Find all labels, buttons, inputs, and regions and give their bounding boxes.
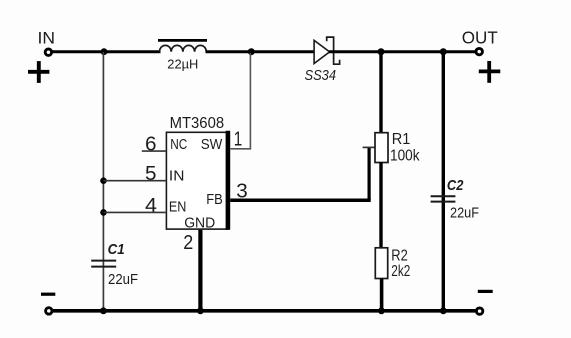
label R1 bbox=[392, 131, 411, 148]
label R2 bbox=[391, 248, 408, 265]
wire C2 branch (vertical through C2) bbox=[442, 53, 445, 310]
node junction at R1 branch bbox=[378, 48, 385, 55]
pin number 4 bbox=[145, 195, 157, 217]
node junction bottom / left rail bbox=[100, 307, 107, 314]
pin label NC bbox=[170, 136, 187, 153]
value label 22uF (C2) bbox=[450, 206, 479, 222]
svg-text:IN: IN bbox=[169, 168, 185, 185]
svg-text:22uF: 22uF bbox=[108, 272, 138, 288]
pin number 3 bbox=[236, 181, 248, 203]
minus sign left bbox=[41, 293, 55, 296]
minus sign right bbox=[478, 290, 493, 293]
label OUT bbox=[462, 27, 498, 47]
pin number 2 bbox=[183, 232, 193, 254]
FB net tick to R1 bbox=[363, 146, 376, 148]
svg-text:FB: FB bbox=[206, 191, 223, 208]
pin label SW bbox=[201, 136, 223, 153]
node junction bottom / GND pin bbox=[197, 307, 204, 314]
terminal IN (open circle) bbox=[45, 49, 51, 55]
node junction bottom / R2 bbox=[378, 307, 385, 314]
pin 4 stub wire bbox=[104, 211, 167, 213]
svg-text:2: 2 bbox=[183, 232, 193, 254]
terminal minus left (open circle) bbox=[46, 308, 52, 314]
pin number 1 bbox=[234, 129, 243, 151]
inductor L1 coil 22µH bbox=[160, 45, 207, 51]
resistor R2 bbox=[375, 248, 387, 279]
node junction at SW riser bbox=[248, 48, 255, 55]
svg-text:22µH: 22µH bbox=[167, 56, 198, 71]
pin 6 stub wire bbox=[142, 150, 167, 152]
pin number 5 bbox=[145, 163, 157, 185]
wire top rail segment 1 (IN terminal to inductor) bbox=[52, 50, 161, 53]
op-amp U1 MT3608 label bbox=[170, 115, 225, 132]
pin 3 FB net wire horizontal bbox=[230, 198, 371, 202]
pin 5 stub wire bbox=[104, 180, 167, 182]
svg-text:EN: EN bbox=[169, 198, 187, 215]
capacitor C2 plates bbox=[431, 196, 456, 201]
value label 22uF (C1) bbox=[108, 272, 138, 288]
IC U1 body box bbox=[166, 132, 228, 229]
wire top rail segment 2 (inductor to diode) bbox=[206, 50, 315, 53]
terminal minus right (open circle) bbox=[476, 308, 482, 314]
svg-text:100k: 100k bbox=[390, 148, 420, 165]
svg-text:SS34: SS34 bbox=[305, 68, 337, 84]
svg-text:6: 6 bbox=[145, 133, 157, 155]
node junction at left rail / top rail bbox=[101, 48, 108, 55]
svg-text:GND: GND bbox=[184, 214, 215, 231]
pin label IN bbox=[169, 168, 185, 185]
value label SS34 bbox=[305, 68, 337, 84]
wire R1 to R2 bbox=[379, 162, 382, 249]
svg-text:1: 1 bbox=[234, 129, 243, 151]
svg-text:5: 5 bbox=[145, 163, 157, 185]
plus sign OUT bbox=[479, 61, 501, 83]
svg-text:OUT: OUT bbox=[462, 27, 498, 47]
IC U1 right edge thick bar bbox=[226, 131, 231, 230]
svg-text:C1: C1 bbox=[108, 241, 125, 258]
svg-text:22uF: 22uF bbox=[450, 206, 479, 222]
capacitor C1 plates bbox=[91, 261, 116, 267]
svg-text:2k2: 2k2 bbox=[391, 263, 410, 280]
diode SS34 schottky cathode bar bbox=[327, 37, 340, 64]
pin label GND bbox=[184, 214, 215, 231]
label IN bbox=[38, 29, 56, 47]
pin label EN bbox=[169, 198, 187, 215]
pin number 6 bbox=[145, 133, 157, 155]
FB net riser vertical bbox=[368, 147, 371, 200]
terminal OUT (open circle) bbox=[476, 48, 482, 54]
pin label FB bbox=[206, 191, 223, 208]
value label 100k bbox=[390, 148, 420, 165]
wire top rail segment 3 (diode to OUT terminal) bbox=[329, 50, 475, 53]
node junction left rail / pin5 bbox=[100, 177, 107, 184]
svg-text:NC: NC bbox=[170, 136, 187, 153]
wire bottom rail bbox=[52, 309, 476, 313]
label C1 bbox=[108, 241, 125, 258]
svg-text:IN: IN bbox=[38, 29, 56, 47]
inductor L1 core bar bbox=[158, 39, 207, 42]
wire R1 branch top bbox=[379, 53, 382, 134]
node junction left rail / pin4 bbox=[100, 209, 107, 216]
plus sign IN bbox=[28, 61, 49, 83]
value label 22µH bbox=[167, 56, 198, 71]
svg-text:R2: R2 bbox=[391, 248, 408, 265]
diode SS34 triangle bbox=[314, 40, 330, 63]
svg-text:4: 4 bbox=[145, 195, 157, 217]
label C2 bbox=[447, 177, 464, 194]
svg-text:R1: R1 bbox=[392, 131, 411, 148]
resistor R1 bbox=[375, 133, 388, 163]
wire left rail (vertical, through C1) bbox=[102, 52, 104, 310]
node junction at C2 branch bbox=[440, 48, 447, 55]
wire R2 bottom bbox=[380, 279, 384, 311]
svg-text:SW: SW bbox=[201, 136, 223, 153]
value label 2k2 bbox=[391, 263, 410, 280]
node junction bottom / C2 bbox=[440, 307, 447, 314]
pin 2 GND wire bbox=[198, 230, 202, 311]
pin 1 SW net wire bbox=[230, 53, 250, 149]
svg-text:C2: C2 bbox=[447, 177, 464, 194]
svg-text:MT3608: MT3608 bbox=[170, 115, 225, 132]
